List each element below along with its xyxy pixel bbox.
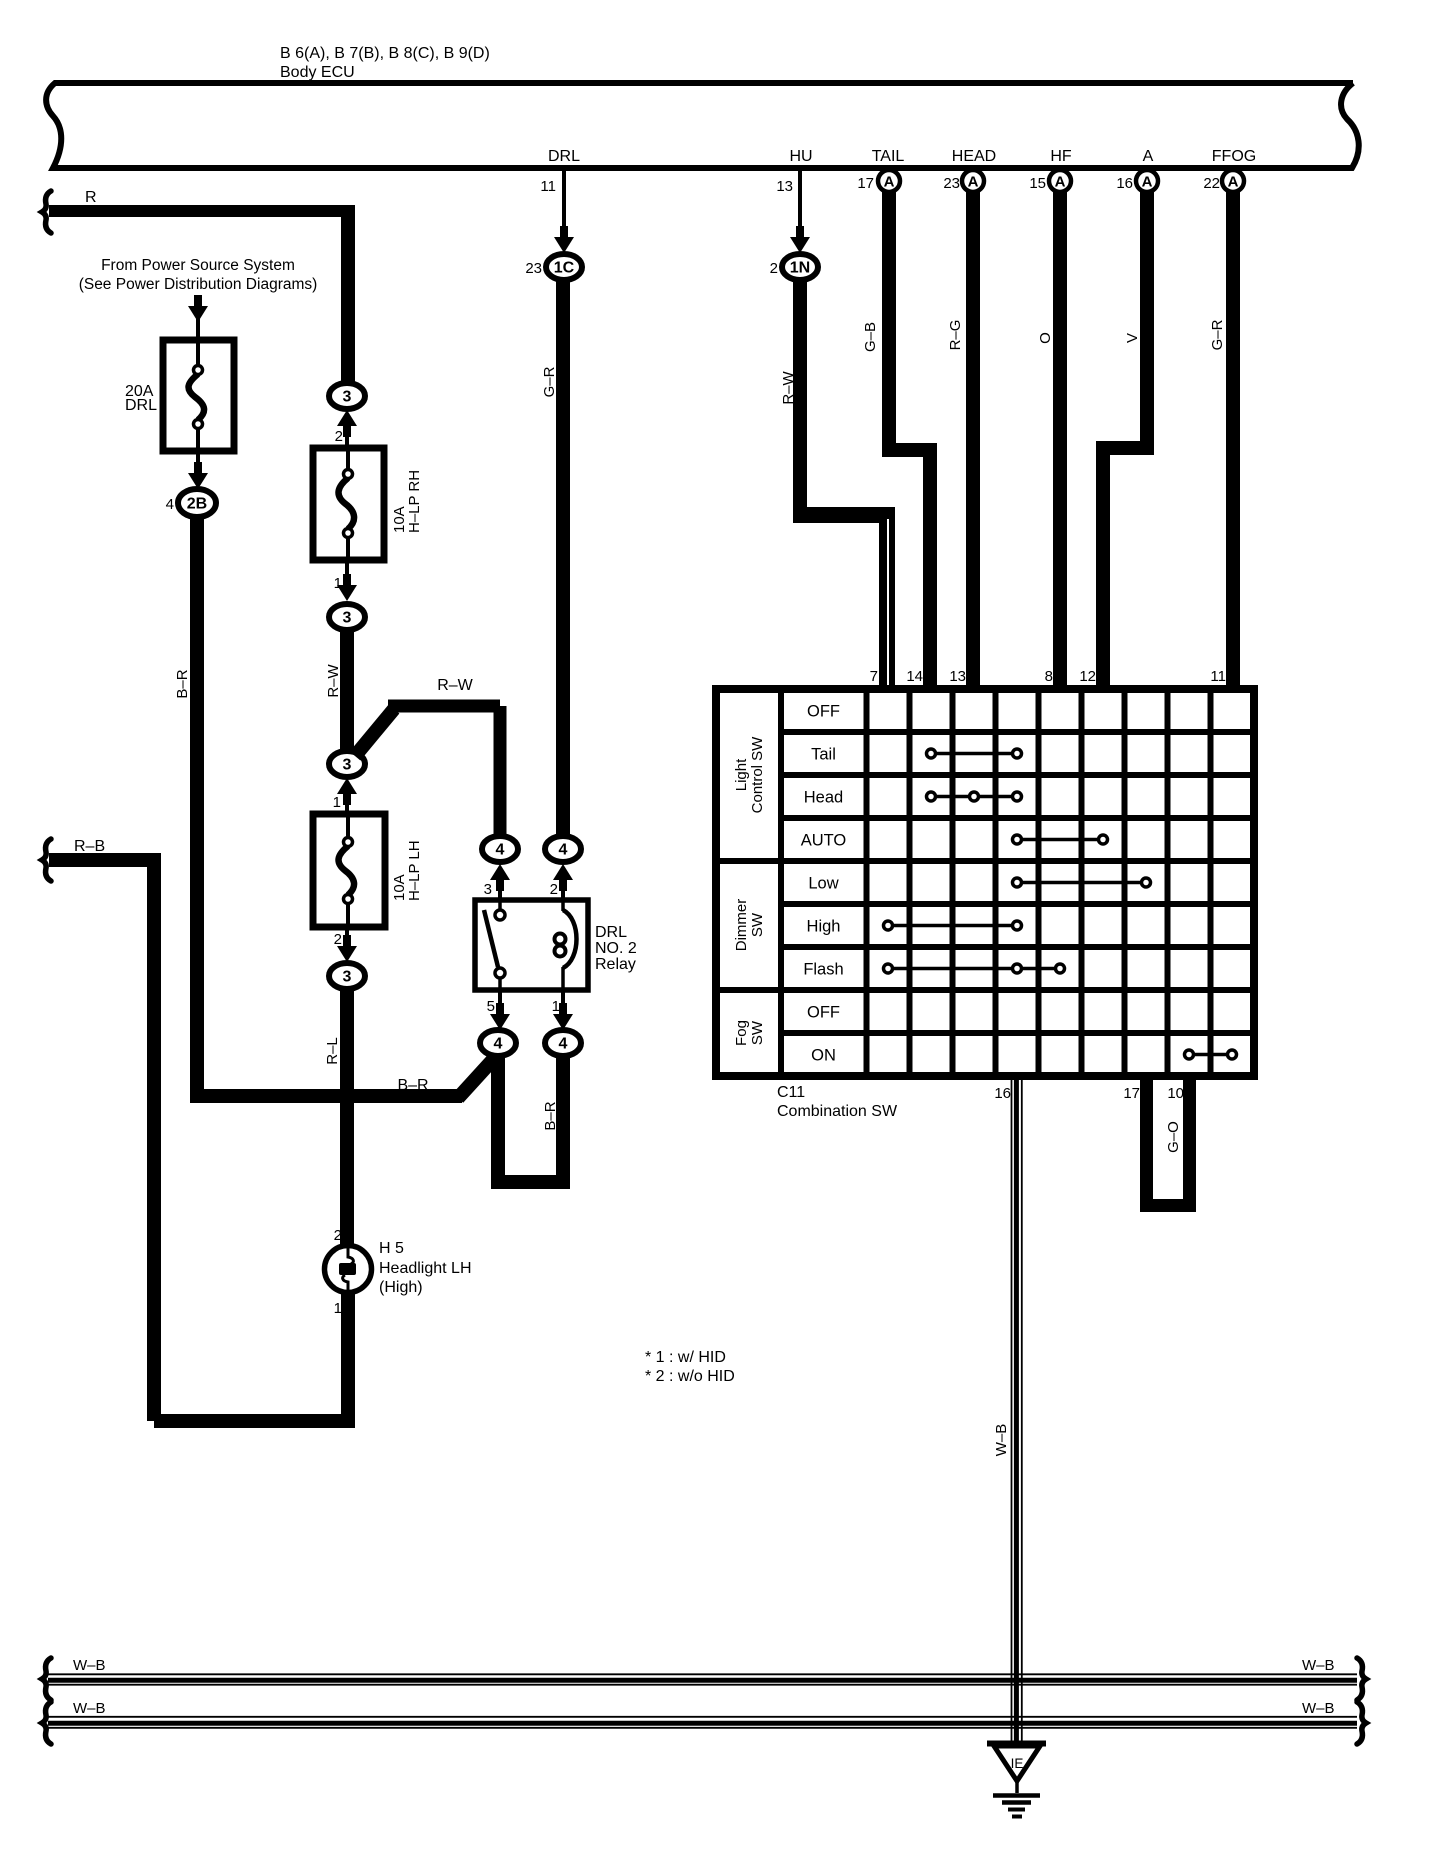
arrow into connector 4 left — [496, 872, 504, 891]
arrow into 1C — [560, 226, 568, 245]
Body ECU bus box — [46, 83, 1359, 168]
fuse 10A H-LP LH box — [313, 814, 385, 927]
svg-text:G–R: G–R — [541, 366, 558, 397]
wire split to pin 7 — [879, 515, 895, 689]
svg-text:SW: SW — [749, 1020, 766, 1045]
combination switch grid — [778, 689, 784, 1076]
svg-text:1: 1 — [334, 1300, 342, 1317]
svg-text:HU: HU — [789, 148, 812, 165]
svg-text:17: 17 — [1123, 1085, 1140, 1102]
node 3 (junction) — [329, 751, 365, 777]
wire R-B bottom horizontal — [154, 1414, 355, 1428]
svg-text:1C: 1C — [554, 260, 575, 277]
contacts Head row — [931, 795, 1017, 799]
contacts Flash row — [888, 967, 1060, 971]
svg-text:V: V — [1124, 333, 1141, 343]
svg-text:R–W: R–W — [325, 663, 342, 697]
wire into LH fuse — [345, 796, 349, 816]
svg-text:Light: Light — [733, 758, 750, 791]
svg-text:23: 23 — [525, 260, 542, 277]
svg-text:12: 12 — [1079, 668, 1096, 685]
wire FFOG to pin 11 — [1226, 171, 1240, 689]
arrow into connector 4 right — [559, 872, 567, 891]
fuse 10A H-LP LH element — [346, 814, 350, 838]
wire DRL pin to 1C — [562, 171, 566, 238]
wire A down — [1140, 171, 1154, 441]
svg-text:2: 2 — [550, 881, 558, 898]
svg-text:R–L: R–L — [324, 1037, 341, 1065]
connector circle A (FFOG) — [1222, 170, 1244, 192]
wire HU pin to 1N — [798, 171, 802, 238]
svg-text:16: 16 — [994, 1085, 1011, 1102]
fuse 20A DRL element — [196, 340, 200, 366]
wire LH fuse to node 3 — [345, 927, 349, 946]
node 3 (bottom) — [329, 963, 365, 989]
svg-text:14: 14 — [906, 668, 923, 685]
wire R down — [341, 211, 355, 384]
svg-text:High: High — [807, 918, 841, 936]
brace W-B upper left — [42, 1658, 51, 1700]
relay coil — [561, 900, 565, 911]
svg-text:4: 4 — [559, 842, 568, 859]
svg-text:(See Power Distribution Diagra: (See Power Distribution Diagrams) — [79, 276, 318, 293]
svg-text:3: 3 — [484, 881, 492, 898]
connector 1N — [782, 254, 818, 280]
svg-text:Combination SW: Combination SW — [777, 1103, 898, 1120]
bus W-B lower — [48, 1716, 1357, 1718]
svg-text:NO. 2: NO. 2 — [595, 940, 637, 957]
wire pin 17 stub — [1140, 1076, 1153, 1199]
svg-text:23: 23 — [943, 175, 960, 192]
svg-text:3: 3 — [343, 757, 352, 774]
svg-text:5: 5 — [487, 998, 495, 1015]
svg-text:2: 2 — [770, 260, 778, 277]
svg-text:2: 2 — [334, 1227, 342, 1244]
svg-text:R–G: R–G — [947, 320, 964, 351]
wire relay pin 1 down — [561, 990, 565, 1013]
wire A to pin 12 — [1096, 448, 1110, 689]
svg-text:W–B: W–B — [73, 1700, 106, 1717]
wire B-R 2B down — [190, 517, 204, 1089]
svg-text:HEAD: HEAD — [952, 148, 996, 165]
relay DRL NO.2 box — [475, 900, 588, 990]
svg-text:SW: SW — [749, 912, 766, 937]
connector 2B — [178, 489, 216, 517]
svg-text:2: 2 — [334, 931, 342, 948]
connector 4 (relay pin 5) — [480, 1030, 516, 1056]
svg-text:B–R: B–R — [542, 1101, 559, 1130]
wire branch diagonal R-W — [355, 709, 394, 756]
bulb H5 — [325, 1246, 372, 1293]
svg-text:OFF: OFF — [807, 703, 840, 721]
wire U loop bottom — [491, 1175, 570, 1189]
contacts AUTO row — [1017, 838, 1103, 842]
svg-text:11: 11 — [540, 178, 556, 195]
relay contact — [498, 900, 502, 909]
svg-text:1N: 1N — [790, 260, 810, 277]
svg-text:G–O: G–O — [1165, 1121, 1182, 1153]
svg-text:13: 13 — [776, 178, 793, 195]
svg-text:TAIL: TAIL — [872, 148, 905, 165]
svg-text:A: A — [1143, 148, 1154, 165]
svg-text:2B: 2B — [187, 496, 207, 513]
wire connector to relay pin 3 — [498, 880, 502, 900]
svg-text:15: 15 — [1029, 175, 1046, 192]
fuse 10A H-LP RH box — [313, 448, 384, 560]
wire B-R horizontal — [190, 1089, 462, 1103]
connector circle A (HEAD) — [962, 170, 984, 192]
wire W-B from pin 16 — [1011, 1076, 1013, 1742]
wire up to H5 pin 1 — [341, 1292, 355, 1421]
connector circle A (A) — [1136, 170, 1158, 192]
svg-text:C11: C11 — [777, 1084, 805, 1101]
wire TAIL to pin 14 — [923, 450, 937, 689]
wire R-W down chain — [340, 630, 354, 753]
wire R horizontal — [49, 205, 355, 217]
svg-text:DRL: DRL — [548, 148, 580, 165]
svg-text:Body ECU: Body ECU — [280, 64, 355, 81]
svg-text:A: A — [1228, 174, 1239, 191]
arrow into connector 4 lower-right — [559, 1003, 567, 1022]
svg-text:2: 2 — [335, 428, 343, 445]
svg-text:IE: IE — [1011, 1756, 1024, 1771]
wire R-W 1N down — [793, 280, 807, 515]
svg-text:3: 3 — [343, 969, 352, 986]
svg-text:4: 4 — [496, 842, 505, 859]
svg-text:* 1 : w/ HID: * 1 : w/ HID — [645, 1349, 726, 1366]
svg-text:4: 4 — [166, 496, 174, 513]
wire RH fuse to node 3 — [345, 560, 349, 584]
wire into RH fuse — [345, 428, 349, 450]
wire below pin1 connector — [556, 1056, 570, 1189]
wire pin 10 stub — [1183, 1076, 1196, 1199]
svg-text:B–R: B–R — [174, 669, 191, 698]
svg-text:Fog: Fog — [733, 1020, 750, 1046]
svg-text:3: 3 — [343, 389, 352, 406]
svg-text:A: A — [968, 174, 979, 191]
fuse 10A H-LP RH element — [346, 448, 350, 470]
fuse 20A DRL box — [163, 340, 234, 451]
svg-text:(High): (High) — [379, 1279, 423, 1296]
svg-text:G–R: G–R — [1209, 319, 1226, 350]
contacts Low row — [1017, 881, 1146, 885]
wire R-B horizontal — [49, 853, 161, 867]
node 3 (mid) — [329, 604, 365, 630]
svg-text:3: 3 — [343, 610, 352, 627]
svg-text:22: 22 — [1203, 175, 1220, 192]
wire HF to pin 8 — [1053, 171, 1067, 689]
node 3 (top) — [329, 383, 365, 409]
svg-text:DRL: DRL — [595, 924, 627, 941]
connector circle A (HF) — [1049, 170, 1071, 192]
svg-text:1: 1 — [333, 794, 341, 811]
svg-text:Relay: Relay — [595, 956, 636, 973]
wire connector to relay pin 2 — [561, 880, 565, 900]
svg-text:A: A — [1055, 174, 1066, 191]
svg-text:Head: Head — [804, 789, 843, 807]
wire R-W jog to pin 7 — [793, 507, 895, 523]
svg-text:R–W: R–W — [780, 370, 797, 404]
svg-text:4: 4 — [494, 1036, 503, 1053]
brace R-B wire end — [42, 839, 51, 881]
contacts ON row — [1189, 1053, 1232, 1057]
wire relay pin 5 down — [498, 990, 502, 1013]
wire R-W branch horizontal — [388, 700, 500, 713]
svg-text:Control SW: Control SW — [749, 736, 766, 814]
svg-text:W–B: W–B — [73, 1657, 106, 1674]
svg-text:HF: HF — [1050, 148, 1072, 165]
wire A jog — [1096, 441, 1154, 455]
svg-text:AUTO: AUTO — [801, 832, 847, 850]
combination switch outer box — [716, 689, 1254, 1076]
svg-text:R–B: R–B — [74, 838, 105, 855]
connector 4 (relay pin 2) — [545, 836, 581, 862]
svg-text:1: 1 — [552, 998, 560, 1015]
svg-text:8: 8 — [1045, 668, 1053, 685]
ground IE — [987, 1741, 1046, 1747]
svg-text:OFF: OFF — [807, 1004, 840, 1022]
wire G-R 1C to relay — [556, 280, 570, 838]
wire below pin5 connector — [491, 1056, 505, 1189]
svg-text:G–B: G–B — [862, 322, 879, 352]
brace W-B upper right — [1357, 1658, 1366, 1700]
arrow below node 3 junction — [343, 786, 351, 805]
contacts High row — [888, 924, 1017, 928]
brace W-B lower right — [1357, 1702, 1366, 1744]
connector 1C — [546, 254, 582, 280]
svg-text:Flash: Flash — [803, 961, 843, 979]
connector 4 (relay pin 3) — [482, 836, 518, 862]
wire HEAD to pin 13 — [966, 171, 980, 689]
svg-text:R: R — [85, 189, 97, 206]
wire TAIL jog — [882, 443, 937, 457]
svg-text:Headlight LH: Headlight LH — [379, 1260, 472, 1277]
svg-text:Dimmer: Dimmer — [733, 899, 750, 952]
contacts Tail row — [931, 752, 1017, 756]
svg-text:10: 10 — [1167, 1085, 1184, 1102]
connector circle A (TAIL) — [878, 170, 900, 192]
svg-text:W–B: W–B — [993, 1424, 1010, 1457]
svg-text:ON: ON — [811, 1047, 836, 1065]
wire B-R diagonal to relay — [458, 1053, 499, 1098]
svg-text:A: A — [1142, 174, 1153, 191]
svg-text:DRL: DRL — [125, 397, 157, 414]
svg-text:R–W: R–W — [437, 677, 473, 694]
arrow into node 3 bottom — [343, 935, 351, 954]
svg-text:16: 16 — [1116, 175, 1133, 192]
svg-text:O: O — [1037, 332, 1054, 344]
svg-text:Tail: Tail — [811, 746, 836, 764]
wire into 20A fuse — [196, 295, 200, 340]
svg-text:13: 13 — [949, 668, 966, 685]
svg-text:A: A — [884, 174, 895, 191]
bus W-B upper — [48, 1673, 1357, 1675]
arrow into 1N — [796, 226, 804, 245]
wire R-B down — [147, 860, 161, 1421]
svg-text:B–R: B–R — [397, 1077, 428, 1094]
svg-text:W–B: W–B — [1302, 1700, 1335, 1717]
svg-text:17: 17 — [857, 175, 874, 192]
svg-text:H–LP LH: H–LP LH — [406, 840, 423, 901]
brace W-B lower left — [42, 1702, 51, 1744]
svg-text:7: 7 — [870, 668, 878, 685]
arrow into 2B — [194, 462, 202, 481]
arrow into 20A fuse — [194, 295, 202, 314]
svg-text:H–LP RH: H–LP RH — [406, 470, 423, 533]
wire R-W branch down to relay — [494, 706, 507, 838]
brace R wire end — [42, 191, 51, 233]
arrow into connector 4 lower-left — [496, 1003, 504, 1022]
svg-text:B 6(A), B 7(B), B 8(C), B 9(D): B 6(A), B 7(B), B 8(C), B 9(D) — [280, 45, 490, 62]
svg-text:* 2 : w/o HID: * 2 : w/o HID — [645, 1368, 735, 1385]
svg-text:Low: Low — [808, 875, 838, 893]
wire TAIL down — [882, 171, 896, 443]
arrow below node 3 top — [343, 418, 351, 437]
svg-text:4: 4 — [559, 1036, 568, 1053]
svg-text:H 5: H 5 — [379, 1240, 404, 1257]
arrow into node 3 mid — [343, 574, 351, 593]
connector 4 (relay pin 1) — [545, 1030, 581, 1056]
svg-text:W–B: W–B — [1302, 1657, 1335, 1674]
wire G-O loop bottom — [1140, 1199, 1196, 1212]
svg-text:From Power Source System: From Power Source System — [101, 257, 295, 274]
wire R-L down — [340, 989, 354, 1247]
svg-text:FFOG: FFOG — [1212, 148, 1256, 165]
svg-text:11: 11 — [1210, 668, 1226, 685]
wire 20A fuse to 2B — [196, 451, 200, 476]
